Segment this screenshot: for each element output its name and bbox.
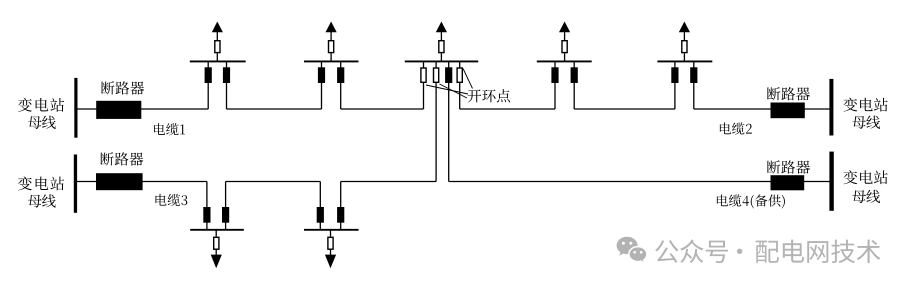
RMU5 busbar bbox=[657, 60, 712, 62]
wire: RMU4 drop 2 bbox=[573, 61, 575, 109]
fuse (transformer feeder) RMU1 bbox=[215, 41, 220, 53]
RMU3 busbar bbox=[405, 60, 478, 62]
fuse (transformer feeder) RMUA bbox=[214, 237, 219, 249]
wire: RMU3 fuse to arrow bbox=[440, 32, 442, 40]
switch (open) RMU3-1 bbox=[421, 68, 426, 82]
circuit breaker (cable2) bbox=[771, 103, 805, 119]
wire: RMUB riser to fuse bbox=[330, 230, 332, 237]
wire: RMU1 riser to fuse bbox=[216, 53, 218, 61]
wire: RMUA riser to fuse bbox=[215, 230, 217, 237]
RMU4 busbar bbox=[537, 60, 592, 62]
wire: RMU2 drop 1 bbox=[321, 61, 323, 109]
label 母线 (bottom-left) bbox=[28, 194, 56, 207]
RMUA busbar bbox=[190, 229, 244, 231]
switch (closed) RMU5-2 bbox=[690, 67, 697, 83]
arrow (outgoing feeder) RMU1 bbox=[212, 22, 223, 33]
label 母线 (top-left) bbox=[28, 116, 56, 129]
wire: RMUB fuse to arrow bbox=[330, 250, 332, 255]
label 断路器 (cable2) bbox=[767, 87, 810, 100]
watermark icon (WeChat bubbles) bbox=[617, 237, 647, 264]
wire: RMU4 fuse to arrow bbox=[564, 32, 566, 40]
wire: RMUB drop 2 bbox=[340, 182, 342, 230]
wire: bottom feeder (cable3/4) segment 2 bbox=[226, 181, 321, 183]
label 变电站 (bottom-left) bbox=[18, 176, 64, 190]
label 母线 (bottom-right) bbox=[852, 190, 880, 203]
arrow (outgoing feeder) RMU2 bbox=[326, 22, 337, 33]
switch (closed) RMU5-1 bbox=[671, 67, 678, 83]
switch (closed) RMU2-2 bbox=[337, 67, 344, 83]
wire: top feeder (cable1/2) segment 1 bbox=[77, 108, 208, 110]
switch (open) RMU3-2 open-loop point bbox=[434, 68, 439, 82]
substation busbar (top-left) bbox=[74, 78, 77, 138]
fuse (transformer feeder) RMUB bbox=[328, 237, 333, 249]
label 母线 (top-right) bbox=[852, 116, 880, 129]
switch (open) RMU3-4 open-loop point bbox=[457, 68, 462, 82]
fuse (transformer feeder) RMU2 bbox=[329, 41, 334, 53]
leader line to open switch RMU3-1 bbox=[426, 85, 468, 94]
wire: RMUB drop 1 bbox=[319, 182, 321, 230]
wire: RMUA fuse to arrow bbox=[215, 250, 217, 255]
switch (closed) RMU4-1 bbox=[551, 67, 558, 83]
wire: bottom feeder (cable3/4) segment 3 bbox=[341, 181, 436, 183]
wire: RMU3 drop 3 riser to cable4 bbox=[448, 61, 450, 181]
wire: top feeder (cable1/2) segment 3 bbox=[341, 108, 424, 110]
label 电缆2 bbox=[720, 122, 752, 134]
wire: bottom feeder (cable3/4) segment 4 bbox=[449, 181, 832, 183]
RMU1 busbar bbox=[190, 60, 246, 62]
label 变电站 (top-right) bbox=[843, 98, 887, 112]
wire: RMU3 riser to fuse bbox=[440, 53, 442, 61]
label 变电站 (bottom-right) bbox=[843, 170, 887, 184]
fuse (transformer feeder) RMU3 bbox=[439, 41, 444, 53]
switch (closed) RMUB-1 bbox=[317, 207, 324, 223]
wire: RMU2 fuse to arrow bbox=[330, 32, 332, 40]
label 变电站 (top-left) bbox=[18, 98, 64, 112]
switch (closed) RMU1-2 bbox=[223, 67, 230, 83]
RMUB busbar bbox=[304, 229, 359, 231]
wire: RMU1 drop 1 bbox=[207, 61, 209, 109]
fuse (transformer feeder) RMU5 bbox=[682, 41, 687, 53]
watermark text 公众号 bbox=[655, 239, 728, 263]
arrow (outgoing feeder) RMUA bbox=[211, 255, 222, 269]
label 断路器 (cable1) bbox=[101, 81, 144, 94]
wire: RMU2 riser to fuse bbox=[330, 53, 332, 61]
switch (closed) RMUB-2 bbox=[337, 207, 344, 223]
label 电缆3 bbox=[155, 194, 187, 206]
circuit breaker (cable4) bbox=[771, 175, 805, 190]
circuit breaker (cable1) bbox=[96, 101, 141, 119]
substation busbar (bottom-left) bbox=[74, 155, 77, 213]
switch (closed) RMU4-2 bbox=[571, 67, 578, 83]
label 开环点 bbox=[468, 89, 510, 102]
wire: RMU3 drop 1 bbox=[423, 61, 425, 109]
switch (closed) RMU3-3 bbox=[445, 67, 452, 83]
switch (closed) RMU1-1 bbox=[205, 67, 212, 83]
fuse (transformer feeder) RMU4 bbox=[562, 41, 567, 53]
label 电缆1 bbox=[154, 123, 185, 135]
arrow (outgoing feeder) RMU4 bbox=[559, 22, 570, 33]
switch (closed) RMU2-1 bbox=[318, 67, 325, 83]
leader line to open switch RMU3-4 bbox=[463, 69, 473, 89]
wire: RMU4 riser to fuse bbox=[564, 53, 566, 61]
watermark dot bbox=[737, 249, 742, 254]
wire: RMU5 riser to fuse bbox=[683, 53, 685, 61]
switch (closed) RMUA-2 bbox=[222, 207, 229, 223]
RMU2 busbar bbox=[304, 60, 359, 62]
wire: RMU2 drop 2 bbox=[340, 61, 342, 109]
wire: RMU3 drop 4 bbox=[459, 61, 461, 109]
wire: RMU4 drop 1 bbox=[554, 61, 556, 109]
wire: top feeder (cable1/2) segment 4 bbox=[460, 108, 555, 110]
arrow (outgoing feeder) RMU3 bbox=[436, 22, 447, 33]
wire: RMU5 fuse to arrow bbox=[683, 32, 685, 40]
substation busbar (top-right) bbox=[829, 79, 833, 136]
wire: RMU3 drop 2 riser to cable3 bbox=[435, 61, 437, 181]
wire: RMU1 drop 2 bbox=[226, 61, 228, 109]
wire: top feeder (cable1/2) segment 6 bbox=[694, 108, 832, 110]
watermark text 配电网技术 bbox=[756, 240, 881, 263]
label 断路器 (cable3) bbox=[100, 152, 143, 165]
substation busbar (bottom-right) bbox=[829, 152, 833, 211]
wire: bottom feeder (cable3/4) segment 1 bbox=[77, 181, 207, 183]
wire: RMU5 drop 2 bbox=[693, 61, 695, 109]
arrow (outgoing feeder) RMU5 bbox=[679, 22, 690, 33]
wire: top feeder (cable1/2) segment 2 bbox=[227, 108, 322, 110]
wire: RMU1 fuse to arrow bbox=[216, 32, 218, 40]
switch (closed) RMUA-1 bbox=[203, 207, 210, 223]
wire: RMUA drop 2 bbox=[225, 182, 227, 230]
wire: RMUA drop 1 bbox=[206, 182, 208, 230]
circuit breaker (cable3) bbox=[96, 173, 143, 190]
label 电缆4(备供) bbox=[717, 194, 785, 208]
wire: top feeder (cable1/2) segment 5 bbox=[574, 108, 675, 110]
wire: RMU5 drop 1 bbox=[674, 61, 676, 109]
label 断路器 (cable4) bbox=[767, 160, 810, 173]
leader line to open switch RMU3-2 bbox=[440, 84, 468, 98]
arrow (outgoing feeder) RMUB bbox=[325, 255, 336, 269]
